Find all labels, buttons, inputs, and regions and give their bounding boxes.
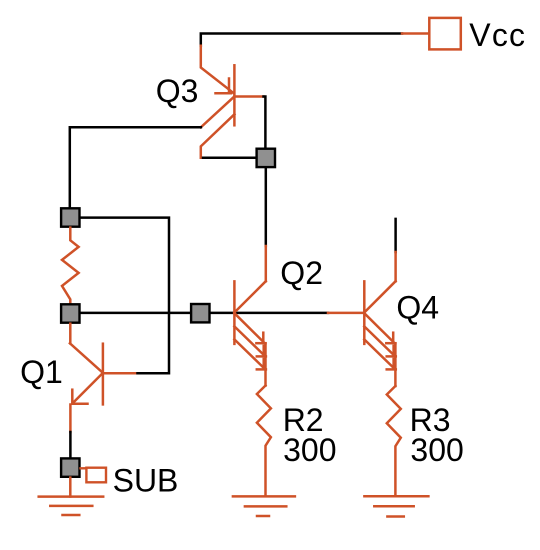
wire node C to node D [81,312,191,315]
power symbol Vcc [429,18,461,50]
wire SUB pin to ground [69,478,72,497]
svg-text:Q1: Q1 [20,354,63,390]
svg-text:Vcc: Vcc [469,17,526,53]
node pin B [61,208,79,226]
svg-text:300: 300 [410,432,463,468]
wire node A down [265,168,268,246]
resistor R3 [387,386,401,496]
ground G1 [39,497,104,515]
transistor Q3 (dual-collector PNP) [201,46,264,158]
wire Q2 collector lead [265,246,268,281]
wire Q3 collector1 left [70,127,201,207]
svg-text:Q4: Q4 [396,289,439,325]
node pin D [191,304,209,322]
node pin E (SUB) [61,458,79,476]
export symbol SUB [86,468,106,483]
wire node B right and down to Q1 base [81,218,170,374]
transistor Q4 (NPN, 3 emitters) [364,281,396,386]
svg-text:SUB: SUB [113,462,179,498]
transistor Q1 (NPN) [70,324,135,432]
wire base net orange part to Q4 [328,312,364,315]
wire Q3 base to node [264,97,266,148]
wire top Vcc rail black [201,34,402,46]
wire Q4 collector stub [394,219,397,252]
wire Q1 emitter to SUB pin [69,432,72,457]
ground G3 [364,496,428,516]
node pin A [257,149,275,167]
resistor R1 [62,228,79,304]
node pin C [61,304,79,322]
wire Q3 collector2 to node [203,157,256,160]
export stub SUB [81,467,87,469]
wire node D to Q2/Q4 base (black part) [211,312,329,315]
wire Vcc lead orange [402,32,429,35]
svg-text:Q2: Q2 [280,255,323,291]
resistor R2 [257,386,271,497]
ground G2 [233,496,295,516]
svg-text:300: 300 [283,432,336,468]
transistor Q2 (NPN, 3 emitters) [234,281,266,385]
svg-text:Q3: Q3 [156,73,199,109]
